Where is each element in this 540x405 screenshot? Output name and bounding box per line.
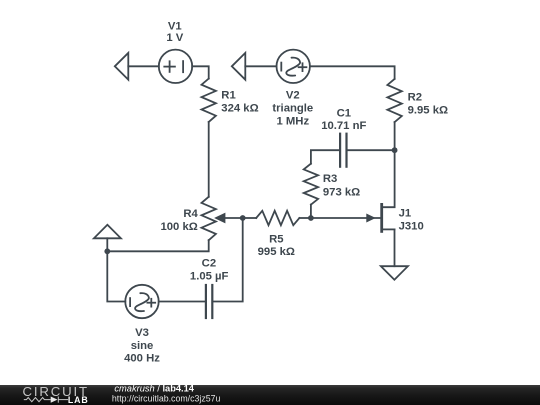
voltage source V3 (sine 400 Hz)	[125, 285, 158, 318]
wire V1 to R1	[192, 66, 209, 78]
svg-text:R2: R2	[408, 91, 422, 103]
wire R1 to R4	[208, 122, 210, 197]
wire C1 to drain node	[348, 149, 395, 151]
label V2 triangle 1 MHz	[272, 89, 313, 127]
wire junction to V3	[107, 251, 125, 301]
JFET J1	[367, 204, 395, 231]
svg-text:1 MHz: 1 MHz	[276, 115, 309, 127]
ground flag at V2 negative terminal	[232, 53, 246, 80]
svg-text:R1: R1	[221, 89, 235, 101]
voltage source V1 (DC 1V)	[159, 50, 192, 83]
resistor R1	[202, 79, 216, 122]
junction node C1/R2/drain	[392, 147, 398, 153]
label R4 100 kΩ	[160, 208, 198, 233]
label R1 324 kΩ	[221, 89, 258, 114]
svg-text:1 V: 1 V	[166, 32, 183, 44]
ground flag at V1 negative terminal	[115, 53, 129, 80]
svg-text:V3: V3	[135, 327, 149, 339]
wire node to JFET drain	[383, 150, 395, 207]
label V3 sine 400 Hz	[124, 327, 160, 364]
capacitor C2	[206, 285, 212, 318]
junction node R3 bottom	[308, 215, 314, 221]
svg-text:C1: C1	[337, 107, 351, 119]
label R2 9.95 kΩ	[408, 91, 448, 116]
svg-text:V2: V2	[286, 89, 300, 101]
label C1 10.71 nF	[321, 107, 366, 132]
svg-text:sine: sine	[131, 340, 154, 352]
wire C2 to wiper node	[213, 218, 242, 302]
wire JFET source to ground	[394, 229, 396, 266]
resistor R2	[387, 79, 401, 122]
wire R5 to R3 node	[299, 217, 311, 219]
label R3 973 kΩ	[323, 173, 360, 198]
wire ground to V2	[245, 65, 276, 67]
label V1 1 V	[166, 20, 183, 44]
wire R4 bottom to left rail	[107, 240, 208, 251]
svg-text:324 kΩ: 324 kΩ	[221, 102, 258, 114]
wire V2 to R2	[310, 66, 395, 79]
label C2 1.05 µF	[190, 258, 229, 283]
svg-text:cmakrush / lab4.14: cmakrush / lab4.14	[114, 383, 194, 393]
resistor R5	[256, 211, 299, 225]
ground flag above junction	[94, 225, 121, 252]
junction node wiper	[240, 215, 246, 221]
wire R2 to node	[394, 122, 396, 150]
wire V3 to C2	[159, 301, 205, 303]
wire R3 top to C1	[311, 150, 339, 164]
label R5 995 kΩ	[258, 233, 295, 258]
svg-text:1.05 µF: 1.05 µF	[190, 270, 229, 282]
svg-text:triangle: triangle	[272, 102, 313, 114]
svg-text:http://circuitlab.com/c3jz57u: http://circuitlab.com/c3jz57u	[112, 393, 221, 403]
svg-text:V1: V1	[168, 20, 182, 32]
svg-text:J310: J310	[399, 221, 424, 233]
svg-text:C2: C2	[202, 258, 216, 270]
resistor R3	[304, 164, 318, 218]
svg-text:R3: R3	[323, 173, 337, 185]
wire gate node to JFET	[311, 217, 381, 219]
svg-text:LAB: LAB	[68, 395, 89, 405]
voltage source V2 (triangle 1 MHz)	[277, 50, 310, 83]
svg-text:J1: J1	[399, 208, 412, 220]
svg-text:400 Hz: 400 Hz	[124, 353, 160, 365]
label J1 J310	[399, 208, 424, 233]
svg-text:995 kΩ: 995 kΩ	[258, 246, 295, 258]
svg-text:100 kΩ: 100 kΩ	[160, 221, 197, 233]
svg-text:R4: R4	[183, 208, 198, 220]
potentiometer R4	[202, 197, 243, 240]
ground	[381, 266, 408, 280]
capacitor C1	[340, 134, 346, 167]
CircuitLab logo	[23, 384, 89, 405]
svg-text:9.95 kΩ: 9.95 kΩ	[408, 104, 448, 116]
footer text	[112, 383, 221, 403]
svg-text:R5: R5	[269, 233, 283, 245]
svg-text:973 kΩ: 973 kΩ	[323, 186, 360, 198]
wire ground to V1	[128, 65, 159, 67]
junction node	[104, 248, 110, 254]
footer bar	[0, 385, 540, 405]
wire node to R5	[243, 217, 257, 219]
svg-text:10.71 nF: 10.71 nF	[321, 120, 366, 132]
